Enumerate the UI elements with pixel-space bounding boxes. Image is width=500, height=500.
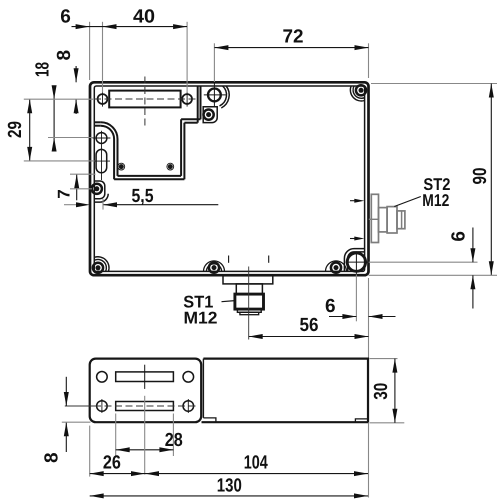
svg-text:28: 28	[165, 430, 183, 451]
svg-text:29: 29	[5, 121, 26, 138]
svg-text:M12: M12	[422, 191, 449, 210]
svg-text:30: 30	[371, 383, 392, 400]
svg-text:72: 72	[283, 27, 304, 48]
svg-text:130: 130	[217, 476, 242, 497]
svg-text:104: 104	[244, 452, 268, 473]
svg-text:56: 56	[300, 315, 319, 336]
svg-text:6: 6	[325, 296, 336, 317]
svg-text:90: 90	[470, 168, 491, 185]
svg-text:26: 26	[103, 453, 121, 474]
svg-text:8: 8	[41, 452, 62, 463]
svg-text:6: 6	[448, 231, 469, 242]
svg-text:7: 7	[55, 189, 74, 198]
svg-text:18: 18	[33, 62, 54, 77]
svg-text:6: 6	[60, 7, 71, 28]
svg-text:5,5: 5,5	[132, 186, 154, 207]
svg-text:40: 40	[133, 7, 155, 28]
svg-text:M12: M12	[184, 309, 218, 328]
svg-text:8: 8	[54, 50, 75, 61]
